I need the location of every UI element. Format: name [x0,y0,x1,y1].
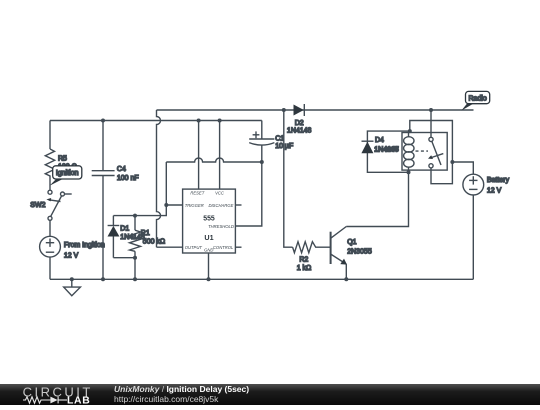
node D2 anode tee [282,108,286,112]
svg-text:12 V: 12 V [487,187,502,194]
node R1 bottom rail [133,277,137,281]
node trigger tee [164,203,168,207]
wire bottom ground rail [50,278,473,280]
svg-text:1 kΩ: 1 kΩ [297,265,312,272]
wire reset to 555 [198,121,200,190]
svg-text:Radio: Radio [468,95,486,102]
op-amp U1 555 box [183,189,236,253]
footer title [114,385,249,404]
svg-text:TRIGGER: TRIGGER [185,203,204,208]
wire battery top [452,162,473,174]
wire D1/R1 top stub [113,215,135,217]
label C1 10 µF [275,135,293,150]
node relay switch rail tee [429,108,433,112]
wire threshold rail with hops [166,158,261,162]
svg-text:U1: U1 [204,233,213,242]
svg-text:1N4148: 1N4148 [374,147,399,154]
node C4 top [101,119,105,123]
svg-text:GND: GND [204,248,213,253]
label D1 1N4148 [120,225,145,241]
label V1 From Ingition 12 V [64,242,105,259]
wire D1/R1 bottom stub [113,257,135,259]
node battery tee [450,160,454,164]
svg-text:1N4148: 1N4148 [287,128,312,135]
label Battery 12 V [487,177,510,195]
label D4 [374,137,399,153]
wire rail to relay switch [430,110,432,137]
wire threshold to C1 bottom [235,162,261,226]
wire trigger run from stub [135,162,166,216]
wire discharge stub [235,204,241,206]
wire R1 to bottom rail [134,258,136,280]
wire battery bottom to rail [472,195,474,279]
svg-text:D4: D4 [375,137,384,144]
svg-text:THRESHOLD: THRESHOLD [208,224,234,229]
svg-text:R2: R2 [299,257,308,264]
relay switch contacts [429,137,441,168]
svg-text:D1: D1 [120,225,129,232]
svg-text:R1: R1 [141,230,150,237]
wire SW2 to V1 [49,220,51,236]
node C1 bottom [260,160,264,164]
switch SW2 [46,190,71,220]
svg-text:C4: C4 [117,166,126,173]
svg-text:SW2: SW2 [30,202,45,209]
node emitter rail [344,277,348,281]
label Q1 2N3055 [347,239,372,255]
node D1/R1 top [133,214,137,218]
label 555 pins [185,191,234,253]
relay K1 box [402,133,447,171]
annotation callout Ignition [50,166,82,186]
ground [64,277,81,295]
svg-text:Ignition: Ignition [56,170,79,177]
wire D2 node to R2 [284,110,293,247]
node C4 bottom rail [101,277,105,281]
wire D4 branch [367,131,409,172]
svg-text:RESET: RESET [190,191,204,196]
svg-text:VCC: VCC [215,191,225,196]
svg-text:555: 555 [203,216,215,223]
svg-text:C1: C1 [275,135,284,142]
node vcc rail [218,119,222,123]
svg-text:CONTROL: CONTROL [213,245,234,250]
wire Q1 collector to relay coil [346,172,408,226]
resistor R1 [130,216,141,258]
svg-text:DISCHARGE: DISCHARGE [208,203,233,208]
node D1/R1 bottom [133,256,137,260]
svg-text:OUTPUT: OUTPUT [185,245,203,250]
svg-text:2N3055: 2N3055 [347,248,372,255]
capacitor C1 [249,121,274,163]
svg-text:Q1: Q1 [347,239,356,246]
wire relay switch bottom loop to battery node [410,121,453,184]
wire gnd to bottom rail [208,253,210,279]
node gnd rail [207,277,211,281]
svg-text:500 kΩ: 500 kΩ [143,239,165,246]
wire supply rail (y=120.5) [50,120,262,122]
label R1 500 kΩ [141,230,165,246]
diode D4 [361,141,373,153]
wire vcc to 555 [219,121,221,190]
relay actuation dashes [416,151,444,159]
node coil top / D4 tee [408,129,412,133]
wire OUTPUT pin run [157,246,183,248]
svg-text:12 V: 12 V [64,252,79,259]
relay coil L [404,133,414,171]
annotation callout Radio [461,91,489,110]
wire trigger to 555 [166,204,182,206]
wire vertical from top rail to OUTPUT with hops [157,110,161,247]
wire left column top (rail to R5) [49,121,51,150]
svg-text:R5: R5 [58,156,67,163]
svg-text:D2: D2 [295,120,304,127]
svg-text:From Ingition: From Ingition [64,242,105,249]
footer bar [0,384,540,405]
diode D1 [108,216,120,258]
label R2 1 kΩ [297,257,312,273]
circuitlab logo [0,384,100,405]
diode D2 [294,104,305,116]
svg-text:LAB: LAB [67,395,90,405]
node reset rail [197,119,201,123]
voltage source battery [463,174,484,195]
voltage source V1 From Ingition [40,236,61,257]
label C4 100 nF [117,166,139,182]
transistor Q1 [331,227,347,265]
wire V1 to bottom rail [49,257,51,279]
node coil bottom / D4 tee [407,170,411,174]
resistor R5 [45,149,54,190]
wire top rail (output net, y=110) [157,109,474,111]
svg-text:100 nF: 100 nF [117,175,139,182]
capacitor C4 [92,121,115,280]
wire Q1 emitter to bottom rail [345,264,347,279]
label D2 1N4148 [287,120,312,135]
resistor R2 [293,242,331,253]
wire control stub [235,246,241,248]
svg-text:Battery: Battery [487,177,510,184]
